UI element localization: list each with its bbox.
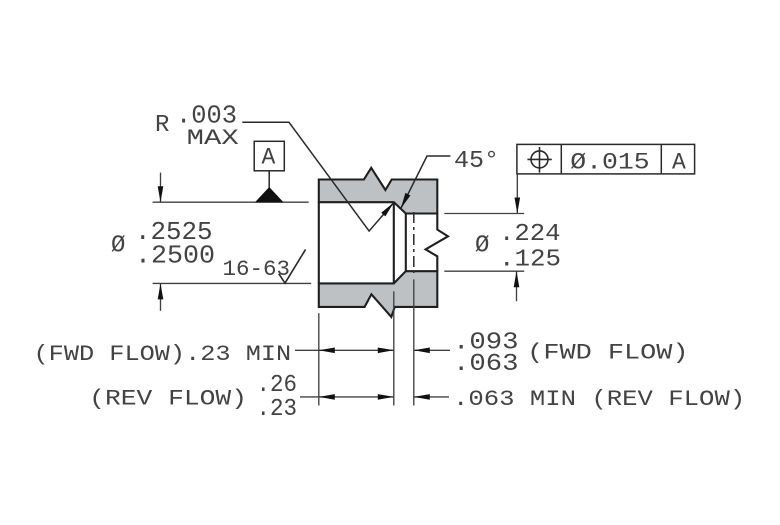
svg-text:(FWD FLOW): (FWD FLOW): [527, 340, 688, 365]
svg-text:Ø: Ø: [475, 233, 489, 260]
leader R.003: [242, 122, 393, 231]
dimension row 2 line (rev flow .26/.23): [300, 394, 394, 400]
svg-text:R: R: [155, 112, 169, 139]
text (FWD FLOW).23 MIN: [34, 342, 292, 367]
part section: top band (gray): [319, 168, 438, 214]
extension line right top (small bore top): [444, 213, 524, 215]
svg-text:MAX: MAX: [187, 126, 239, 151]
left dia dimension arrow bottom: [158, 283, 164, 310]
svg-text:.2500: .2500: [135, 241, 215, 271]
datum triangle: [255, 187, 284, 202]
extension line top left (bore top): [153, 201, 309, 203]
svg-text:.224: .224: [499, 221, 561, 248]
bottom extension line x=393.8: [393, 291, 395, 405]
dim text dia .2525/.2500: [111, 217, 215, 271]
part section: bottom band (gray): [319, 271, 438, 317]
svg-text:.26: .26: [257, 372, 298, 399]
position symbol: [527, 147, 551, 173]
text R .003 MAX: [155, 100, 239, 151]
svg-text:(REV FLOW): (REV FLOW): [89, 387, 247, 412]
svg-text:.125: .125: [499, 246, 561, 273]
svg-text:A: A: [672, 150, 686, 176]
dimension row 1 right line (.093/.063): [414, 348, 450, 354]
small bore edge line: [405, 214, 407, 272]
extension line bottom left (bore bottom): [153, 282, 312, 284]
bottom extension line x=413.8: [413, 279, 415, 405]
FCF datum ref text: [672, 150, 686, 176]
svg-text:45°: 45°: [454, 148, 499, 175]
svg-text:Ø: Ø: [111, 233, 125, 260]
svg-text:Ø.015: Ø.015: [570, 150, 649, 176]
text .063 MIN (REV FLOW): [453, 387, 745, 412]
part left face edge: [318, 202, 320, 283]
datum A box: [254, 141, 284, 171]
svg-text:A: A: [262, 145, 276, 171]
svg-text:.063 MIN (REV FLOW): .063 MIN (REV FLOW): [453, 387, 745, 412]
text (REV FLOW): [89, 387, 247, 412]
FCF leader with arrow: [515, 174, 521, 214]
dim text dia .224/.125: [475, 221, 561, 273]
dimension row 1 line (fwd flow .23 min): [295, 348, 394, 354]
text 45deg: [454, 148, 499, 175]
svg-text:.23: .23: [257, 396, 298, 423]
bottom extension line x=318.8: [318, 313, 320, 405]
bore end face line: [393, 202, 395, 283]
FCF tolerance text: [570, 150, 649, 176]
right dia dimension arrow bottom: [514, 271, 520, 301]
stacked .093/.063: [453, 329, 519, 378]
left dia dimension arrow top: [158, 173, 164, 203]
svg-text:16-63: 16-63: [223, 257, 291, 282]
surface finish 16-63: [223, 249, 306, 283]
extension line right bottom (small bore bottom): [444, 270, 524, 272]
centerline (dash-dot): [413, 212, 415, 273]
feature control frame box: [517, 144, 695, 174]
datum stem: [268, 171, 270, 188]
stacked .26/.23: [257, 372, 298, 423]
right break zigzag: [426, 214, 448, 272]
leader 45deg: [401, 156, 451, 209]
svg-text:(FWD FLOW).23 MIN: (FWD FLOW).23 MIN: [34, 342, 292, 367]
text (FWD FLOW) right: [527, 340, 688, 365]
dimension row 2 right line (.063 min): [414, 394, 449, 400]
svg-text:.063: .063: [453, 351, 519, 378]
